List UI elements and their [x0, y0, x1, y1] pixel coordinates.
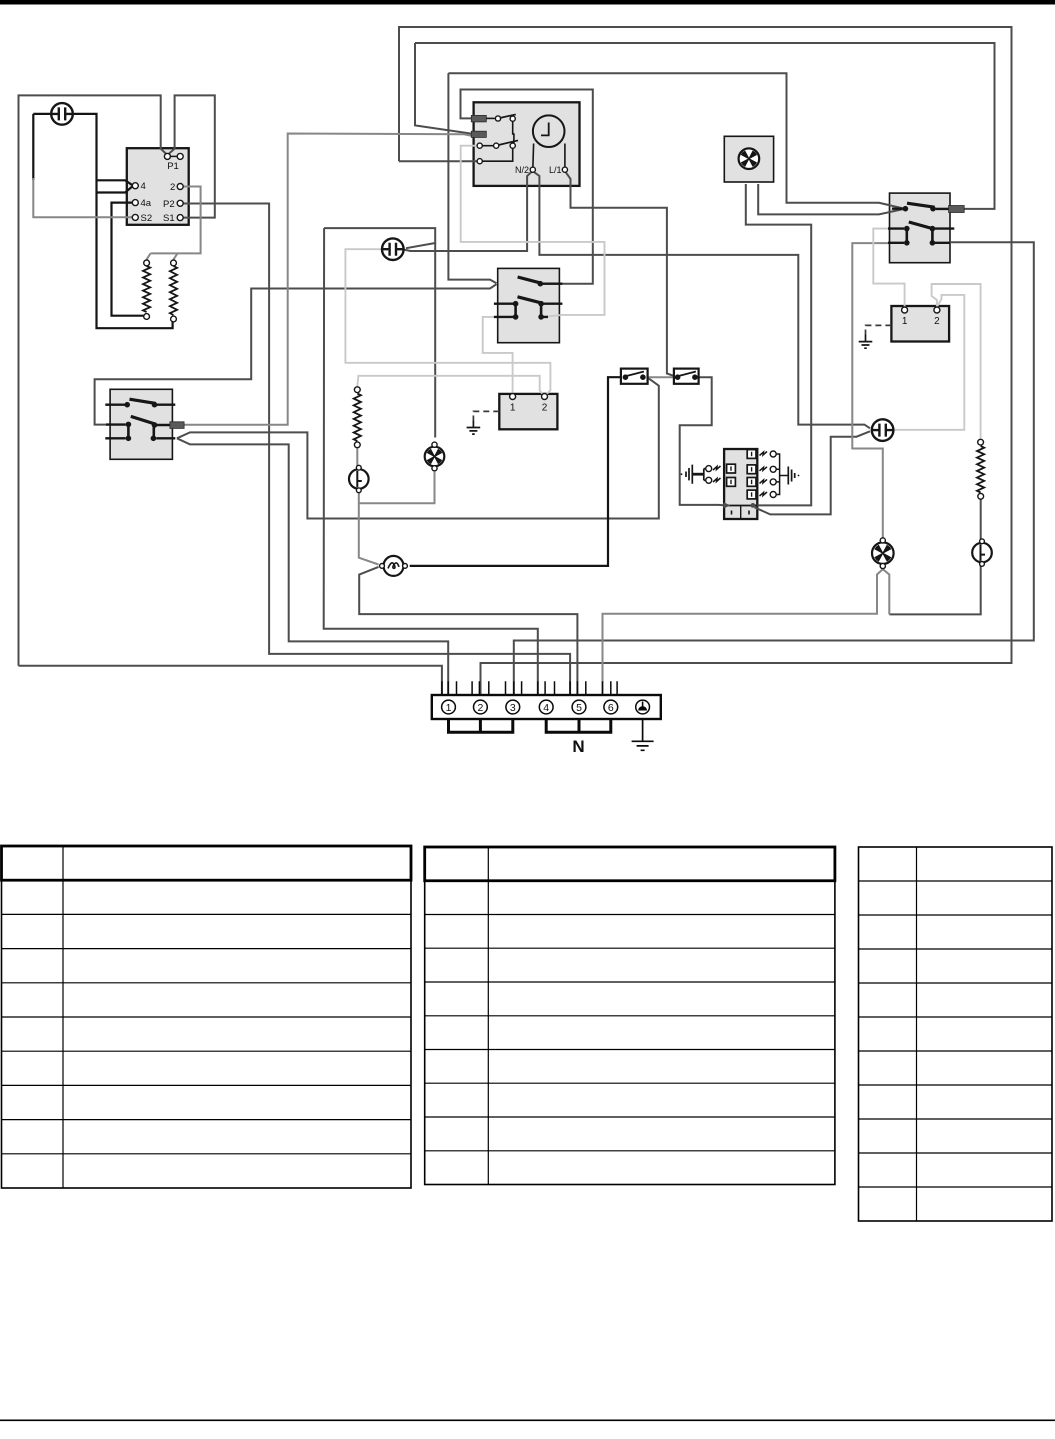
svg-text:6: 6 — [608, 702, 614, 714]
svg-text:3: 3 — [510, 702, 516, 714]
svg-text:4: 4 — [543, 702, 549, 714]
svg-text:5: 5 — [576, 702, 582, 714]
svg-text:2: 2 — [170, 182, 175, 193]
svg-text:1: 1 — [902, 316, 908, 327]
svg-text:2: 2 — [934, 316, 940, 327]
svg-text:S1: S1 — [163, 213, 175, 224]
svg-text:N: N — [572, 737, 584, 756]
svg-text:2: 2 — [542, 403, 548, 414]
svg-text:1: 1 — [510, 403, 516, 414]
svg-text:N/2: N/2 — [515, 165, 529, 175]
svg-text:P1: P1 — [167, 161, 179, 172]
svg-text:S2: S2 — [141, 213, 153, 224]
svg-text:L/1: L/1 — [549, 165, 562, 175]
svg-text:P2: P2 — [163, 199, 175, 210]
svg-text:1: 1 — [446, 702, 452, 714]
svg-text:4a: 4a — [141, 198, 152, 209]
svg-text:2: 2 — [477, 702, 483, 714]
svg-text:4: 4 — [141, 181, 146, 192]
